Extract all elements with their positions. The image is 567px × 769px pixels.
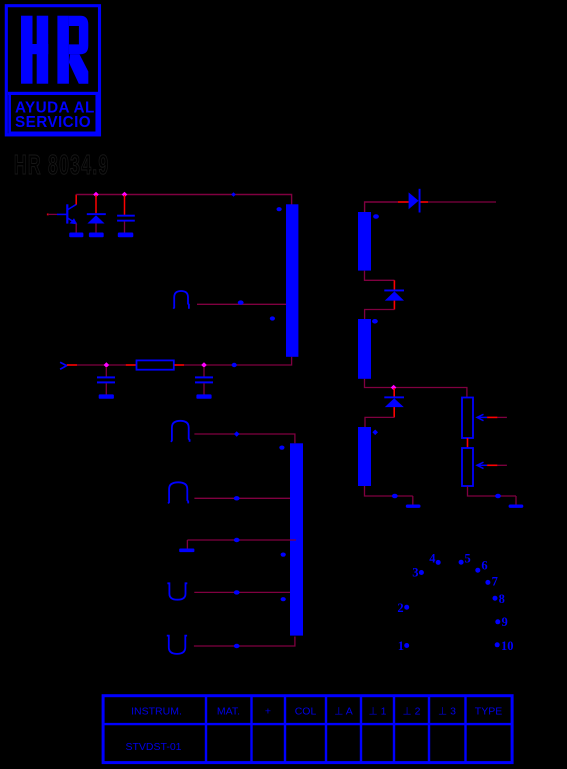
polarity dot lower bar top [279, 446, 284, 450]
diode D2 EHT [409, 192, 419, 209]
svg-text:TYPE: TYPE [475, 706, 502, 718]
svg-text:9: 9 [502, 615, 508, 629]
node base input dot [47, 214, 49, 216]
capacitor C1 [117, 215, 135, 217]
wire resistor out red [174, 364, 184, 366]
svg-text:⊥ 2: ⊥ 2 [403, 706, 421, 718]
wire S1 bottom to D3 [365, 271, 395, 281]
pin 5 [459, 560, 464, 565]
svg-text:5: 5 [465, 552, 471, 566]
wire to S3 top [365, 417, 394, 427]
wire cap stub [124, 195, 126, 215]
capacitor C2 [97, 376, 115, 378]
svg-text:HR 8034.9: HR 8034.9 [14, 149, 110, 180]
node L2 wire dot [238, 300, 244, 304]
svg-text:SERVICIO: SERVICIO [15, 114, 91, 131]
pin 4 [436, 560, 441, 565]
node L5 wire dot [234, 590, 240, 594]
ground (emitter) [69, 233, 83, 238]
pin 9 [495, 619, 500, 624]
transistor Q1 [67, 204, 76, 223]
resistor R2 focus [462, 398, 473, 439]
wire to primary bottom [184, 357, 292, 365]
svg-text:STVDST-01: STVDST-01 [125, 741, 181, 753]
wire EHT out [428, 201, 496, 203]
wire L5 to bar [194, 591, 290, 593]
wire ground tap [187, 539, 296, 541]
transformer secondary bar S3 [358, 427, 371, 486]
table column lines [205, 696, 207, 763]
transformer secondary bar S2 [358, 319, 371, 379]
coil L5 [167, 583, 187, 599]
svg-text:2: 2 [397, 601, 403, 615]
wire C3 stub [203, 367, 205, 377]
wire R3 ground stub [515, 496, 517, 505]
node R3 ground dot [495, 494, 501, 499]
wire EHT anode red [398, 201, 409, 203]
diode D4 [384, 396, 404, 398]
node ground tap dot [234, 538, 240, 542]
wire C1 to ground [124, 221, 126, 232]
table frame [103, 696, 512, 763]
table header divider [103, 723, 512, 725]
HR logo letter R [57, 16, 88, 84]
svg-text:⊥ 1: ⊥ 1 [369, 706, 387, 718]
HR logo border [6, 6, 99, 135]
svg-text:8: 8 [499, 592, 505, 606]
coil L6 [167, 636, 187, 654]
svg-text:COL: COL [295, 706, 317, 718]
transformer T1 lower bar [290, 443, 303, 635]
transformer secondary bar S1 [358, 212, 371, 271]
transformer T1 primary bar [286, 204, 298, 356]
wire screen adj tail [497, 464, 507, 466]
svg-text:+: + [265, 706, 271, 718]
svg-text:4: 4 [429, 552, 436, 566]
wire input to junction [77, 364, 126, 366]
wire input red [67, 364, 77, 366]
arrow screen adj [477, 462, 487, 468]
pin 2 [404, 605, 409, 610]
wire C3 to ground [203, 383, 205, 394]
ground (C1) [118, 233, 134, 238]
wire screen adj red [487, 464, 497, 466]
svg-text:6: 6 [481, 559, 487, 573]
ground (tap) [179, 549, 194, 553]
pin 3 [419, 570, 424, 575]
polarity dot primary top [277, 207, 282, 211]
wire L3 to bar [194, 434, 295, 443]
svg-text:3: 3 [412, 566, 418, 580]
diode D3 [384, 290, 404, 292]
wire base lead [48, 213, 57, 215]
node junction (diode) [93, 192, 99, 198]
node L4 wire dot [234, 496, 240, 500]
wire focus adj red [487, 416, 497, 418]
polarity dot lower bar mid [281, 553, 286, 557]
ground (R3) [509, 505, 524, 508]
wire to S2 top [365, 310, 395, 320]
wire C2 to ground [105, 383, 107, 394]
node S3 ground dot [392, 494, 398, 499]
wire L2 to primary [197, 303, 286, 305]
pin 8 [493, 596, 498, 601]
coil L2 [173, 291, 189, 309]
ground (C2) [99, 394, 114, 398]
ground (S3) [406, 505, 421, 508]
wire EHT cathode red [421, 201, 429, 203]
node divider junction [391, 385, 397, 391]
svg-text:⊥ A: ⊥ A [334, 706, 353, 718]
svg-text:INSTRUM.: INSTRUM. [131, 706, 182, 718]
wire S3 ground stub [412, 496, 414, 505]
ground (C3) [196, 394, 211, 398]
pin 1 [404, 643, 409, 648]
svg-text:1: 1 [398, 639, 404, 653]
arrow focus adj [477, 414, 487, 420]
capacitor C3 [195, 376, 213, 378]
svg-text:7: 7 [492, 574, 498, 588]
polarity dot primary bottom [270, 316, 275, 320]
HR logo letter H [21, 16, 48, 84]
HR logo separator bar [8, 92, 98, 95]
wire S1 top [365, 202, 398, 212]
polarity dot S3 [372, 430, 378, 436]
node L3 wire dot [234, 431, 240, 437]
node feed dot [232, 363, 237, 367]
wire C2 stub [105, 367, 107, 377]
svg-text:⊥ 3: ⊥ 3 [438, 706, 456, 718]
pin 7 [485, 580, 490, 585]
wire R3 bottom to ground [468, 486, 517, 496]
polarity dot S2 [372, 319, 378, 324]
wire to resistor red [126, 364, 136, 366]
wire R2-R3 red [467, 438, 469, 448]
resistor R3 screen [462, 448, 473, 486]
coil L4 [168, 482, 188, 503]
HR logo inner box [10, 95, 97, 133]
diode D1 [87, 213, 106, 215]
wire L4 to bar [194, 497, 290, 499]
wire focus adj tail [497, 416, 507, 418]
wire S3 bottom to ground [365, 486, 413, 496]
svg-text:10: 10 [501, 639, 514, 653]
wire top rail [76, 195, 291, 205]
node L6 wire dot [234, 644, 240, 648]
node junction C2 [104, 362, 110, 368]
wire D3 out red [393, 301, 395, 310]
wire D3 anode stub red [393, 280, 395, 290]
wire diode stub [95, 195, 97, 213]
wire L6 to bar [194, 637, 295, 647]
wire emitter stub [75, 223, 77, 232]
wire S2 bottom to divider [365, 379, 467, 398]
input arrow [60, 362, 67, 369]
wire D4 out red [393, 407, 395, 417]
node junction (cap) [122, 192, 128, 198]
pin 10 [495, 642, 500, 647]
coil L3 [171, 421, 190, 442]
wire collector stub [75, 195, 77, 205]
pin 6 [475, 568, 480, 573]
node top rail dot [231, 192, 236, 197]
polarity dot S1 [373, 214, 379, 219]
polarity dot lower bar bottom [281, 597, 286, 601]
ground (D1) [89, 233, 104, 238]
node junction C3 [201, 362, 207, 368]
wire D4 stub red [393, 388, 395, 397]
wire ground stub [186, 540, 188, 549]
svg-text:MAT.: MAT. [217, 706, 240, 718]
resistor R1 [137, 360, 174, 369]
wire D1 to ground [95, 223, 97, 232]
